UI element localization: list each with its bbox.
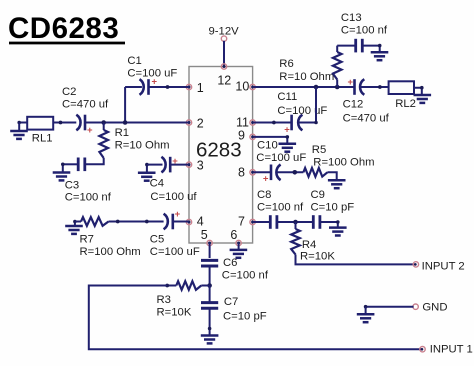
op-amp IC U1 6283 body (189, 67, 253, 244)
svg-text:R=10 Ohm: R=10 Ohm (115, 140, 170, 152)
svg-text:C10: C10 (257, 140, 278, 152)
wire RL2 to ground (414, 88, 422, 95)
terminal INPUT 2 (413, 262, 418, 267)
svg-text:C=100 nf: C=100 nf (222, 270, 269, 282)
svg-text:C6: C6 (223, 257, 237, 269)
terminal INPUT 1 (420, 347, 425, 352)
svg-text:C=100 uF: C=100 uF (256, 152, 306, 164)
svg-text:R5: R5 (312, 144, 326, 156)
svg-text:1: 1 (197, 81, 204, 95)
wire C5 to pin 4 (173, 221, 189, 223)
U1 pin 11 (250, 120, 255, 125)
svg-text:R7: R7 (80, 234, 94, 246)
U1 pin 1 (186, 84, 191, 89)
load RL2 (389, 81, 414, 94)
ground GND (357, 313, 375, 316)
svg-text:CD6283: CD6283 (8, 12, 119, 45)
svg-text:5: 5 (201, 228, 208, 242)
svg-text:C=470 uf: C=470 uf (343, 113, 390, 125)
wire R5 to ground (327, 172, 336, 180)
wire C2 to pin 2 (85, 122, 189, 124)
wire C11 to pin 10 net (299, 87, 316, 123)
wire C12 to RL2 (361, 86, 389, 88)
svg-text:C=100 nf: C=100 nf (257, 202, 304, 214)
svg-text:C8: C8 (257, 189, 271, 201)
U1 pin 10 (250, 84, 255, 89)
wire pin 11 to C11 (253, 122, 292, 124)
svg-text:C2: C2 (62, 86, 76, 98)
wire ground to C4 (147, 164, 163, 166)
wire power to pin 12 (223, 41, 225, 67)
svg-text:+: + (175, 209, 181, 220)
U1 pin 2 (186, 120, 191, 125)
wire GND terminal (366, 306, 414, 308)
wire C7 to ground (209, 308, 211, 335)
wire pin 9 to ground (253, 137, 288, 144)
svg-text:8: 8 (238, 165, 245, 179)
ground C3 (53, 171, 71, 174)
svg-text:7: 7 (238, 215, 245, 229)
svg-text:R=10 Ohm: R=10 Ohm (279, 71, 334, 83)
ground R5 (328, 179, 346, 182)
wire C4 to pin 3 (170, 164, 189, 166)
U1 pin 7 (250, 219, 255, 224)
ground RL1 (10, 130, 28, 133)
wire R4 to input 2 line (296, 255, 416, 265)
svg-text:RL2: RL2 (395, 98, 416, 110)
svg-text:C=10 pF: C=10 pF (223, 311, 267, 323)
svg-text:+: + (87, 125, 93, 136)
wire C3 to ground (63, 163, 78, 165)
svg-text:R=100 Ohm: R=100 Ohm (80, 246, 141, 258)
U1 pin 3 (186, 162, 191, 167)
svg-text:C=470 uf: C=470 uf (62, 99, 109, 111)
svg-text:R4: R4 (302, 239, 316, 251)
svg-text:+: + (348, 77, 354, 88)
wire C1 to pin 1 (149, 86, 190, 88)
wire C1 branch vertical (124, 87, 126, 123)
terminal GND (413, 304, 418, 309)
svg-text:C11: C11 (277, 91, 297, 103)
ground pin 6 (230, 249, 248, 252)
svg-text:12: 12 (217, 73, 231, 87)
svg-text:C9: C9 (311, 189, 325, 201)
svg-text:R=10K: R=10K (300, 251, 335, 263)
wire C8 to node (277, 221, 313, 223)
load RL1 (27, 117, 53, 130)
ground C7 (201, 334, 219, 337)
svg-text:C=100 nf: C=100 nf (65, 192, 112, 204)
svg-text:10: 10 (235, 79, 249, 93)
wire pin 7 to C8 (253, 221, 271, 223)
ground C9 (329, 226, 347, 229)
wire pin 6 to ground (238, 243, 240, 250)
svg-text:R=100 Ohm: R=100 Ohm (313, 157, 374, 169)
ground C13 (371, 51, 389, 54)
wire pin 8 to C10 (253, 171, 271, 173)
svg-text:9: 9 (238, 129, 245, 143)
U1 pin 6 (236, 240, 241, 245)
ground R7 (74, 222, 76, 227)
svg-text:C5: C5 (150, 234, 164, 246)
svg-text:6: 6 (230, 228, 237, 242)
wire R7 to C5 (109, 221, 164, 223)
svg-text:R6: R6 (279, 58, 293, 70)
svg-text:C=100 uf: C=100 uf (150, 191, 197, 203)
U1 pin 4 (186, 219, 191, 224)
ground C4 (146, 165, 148, 173)
svg-text:C=10 pF: C=10 pF (311, 202, 355, 214)
svg-text:11: 11 (236, 116, 249, 130)
svg-text:+: + (152, 77, 158, 88)
svg-text:C13: C13 (341, 12, 362, 24)
svg-text:R3: R3 (157, 294, 171, 306)
svg-text:C3: C3 (65, 180, 79, 192)
svg-text:R=10K: R=10K (157, 307, 192, 319)
svg-text:INPUT 1: INPUT 1 (430, 344, 473, 356)
svg-text:R1: R1 (115, 127, 129, 139)
wire node to C1 (125, 86, 142, 88)
wire C9 to ground (320, 222, 338, 228)
svg-text:C7: C7 (224, 296, 238, 308)
wire R6 to C13 (337, 45, 356, 47)
svg-text:RL1: RL1 (32, 133, 53, 145)
wire pin 5 to C6 (209, 243, 211, 258)
U1 pin 12 (221, 64, 226, 69)
svg-text:INPUT 2: INPUT 2 (422, 260, 465, 272)
svg-text:C=100 nf: C=100 nf (341, 25, 388, 37)
svg-text:+: + (263, 173, 269, 184)
svg-text:C1: C1 (127, 55, 141, 67)
ground RL2 (414, 94, 432, 97)
wire C6 to node (209, 266, 211, 286)
U1 pin 8 (250, 170, 255, 175)
svg-text:2: 2 (197, 117, 204, 131)
wire R1 to C3 (85, 158, 104, 164)
wire pin 10 row (253, 86, 355, 88)
svg-text:GND: GND (422, 302, 447, 314)
wire RL1 to C2 (53, 122, 76, 124)
svg-text:+: + (284, 125, 290, 136)
wire C10 to R5 (277, 171, 303, 173)
wire C13 to ground (362, 45, 379, 47)
ground pin 9 (279, 143, 297, 146)
svg-text:C12: C12 (343, 99, 364, 111)
wire feedback loop to input 1 line (89, 286, 423, 350)
wire RL1 to ground (19, 122, 27, 124)
svg-text:3: 3 (197, 159, 204, 173)
svg-text:C=100 uF: C=100 uF (150, 246, 200, 258)
U1 pin 9 (250, 134, 255, 139)
svg-text:4: 4 (197, 215, 204, 229)
svg-text:C4: C4 (150, 178, 164, 190)
U1 pin 5 (207, 240, 212, 245)
